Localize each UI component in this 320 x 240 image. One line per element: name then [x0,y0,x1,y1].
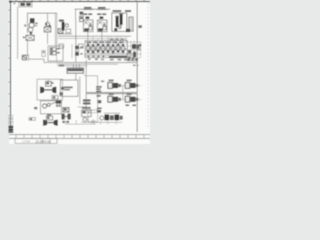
station 2 text [97,13,101,15]
pump P1 [29,23,34,28]
axle 1 bar [42,89,55,91]
frame column ticks [15,1,145,2]
mid right tall box [86,76,97,110]
station 1 header line [83,9,93,11]
small speck left of labels [13,3,15,5]
tractor icon [62,108,71,123]
frame corner mark [9,1,11,3]
small text column right of box [96,86,101,112]
motor group label [101,81,104,82]
small mark right margin [138,25,141,27]
frame left border [10,1,12,132]
pump side specks [35,23,38,25]
pump left speck [24,25,26,27]
steering circles [43,104,47,108]
valve 3a [50,48,56,51]
regulator W1 [22,55,26,59]
left bus cluster [58,20,83,62]
wheel motor bottom-right [125,93,138,102]
inner box mid-left [48,46,63,61]
tank T1 [67,68,84,73]
station 1 label [84,7,91,9]
frame top border [9,1,150,3]
label strip top-left [19,2,32,7]
manifold text specks [87,42,124,43]
wire filter down [47,32,49,44]
wire regulator right [29,59,57,62]
tank riser [72,64,74,68]
station header line [75,8,111,10]
wires to wheels right [78,106,87,108]
label W left [34,107,37,109]
axle box 1 port [61,87,64,90]
label cell B [26,3,30,6]
ruler ticks [16,135,144,139]
brake unit labels [113,10,122,12]
station 2 valve group [97,20,107,32]
under-bar specks [88,58,127,60]
wheel motor top-left [108,80,121,89]
center box right edge [71,44,73,58]
manifold drain triangles [87,56,104,58]
svg-text:21.DRY.10: 21.DRY.10 [36,140,51,144]
accumulator bar 1 [116,17,119,27]
enclosure top-left [28,13,58,33]
valve cluster left-center [58,20,71,34]
manifold dark bar [109,56,127,58]
right valve cluster [126,41,142,61]
valve cluster bottom-center [81,107,122,125]
station 2 solenoid [100,17,104,19]
svg-text:LT-DR: LT-DR [23,140,31,144]
axle 1 control [46,81,52,86]
axle 2 bar [47,122,55,124]
frame row ticks [8,10,10,106]
valve V1 [26,35,34,40]
page background [0,0,150,150]
axle box 1 [37,79,63,100]
valve 3b [50,52,56,55]
revision cells light [9,115,13,125]
accumulator column [80,12,84,22]
wheel motor link wires [106,86,141,100]
extra rails right [108,39,127,41]
motor M1 [30,18,34,23]
tank to box wire [84,74,87,76]
bottom manifold [100,105,136,121]
station 1 valve group [83,20,93,32]
enclosure left tall box edge [54,13,56,46]
revision stack [9,126,14,133]
label P1 [23,37,25,39]
hose band to wheels [86,92,137,94]
filter F1 [46,22,50,26]
wheel motor bottom-left [108,93,121,102]
axle 1 wheel right [52,87,56,94]
bus end specks [133,65,136,67]
text left of bus [59,65,64,67]
bottom ruler band [9,135,150,139]
small side box left [42,51,45,57]
center box text [64,87,73,89]
bus lines center [57,62,137,64]
small square in brake box [114,28,117,31]
label cell A [21,3,25,6]
squares under steering box [56,104,58,106]
steering link [50,102,56,104]
steering dark box [56,100,61,103]
station 1 solenoid [86,17,90,19]
manifold lower rails [85,53,135,55]
wire left vertical [17,7,19,59]
small marks bottom-left of box [60,92,63,95]
station 1 drop wire [87,32,89,41]
page right edge dashes [147,3,149,128]
center white box [60,80,78,96]
text rows left cluster [83,99,90,104]
wire right of center box [79,77,81,104]
lower small box [88,113,98,122]
station 2 drop wire [101,32,103,41]
accumulator bar 2 [120,15,123,25]
bus line upper 2 [58,37,127,39]
wheel motor top-right [125,80,138,89]
axle 1 control riser [47,79,49,81]
manifold valves row [86,44,124,54]
brake unit box [112,13,127,31]
dark block right of brake box [126,29,130,32]
small marks above band center [29,118,35,121]
title box [15,138,57,143]
station 2 header line [97,9,107,11]
valve under box2 [47,114,51,116]
manifold bottom specks [128,57,134,59]
steering box 2 [41,101,62,114]
manifold enclosure [85,41,127,58]
circle in brake box [118,26,121,29]
valve string on riser [75,46,83,56]
tank outlet [75,73,77,80]
station 2 label [98,7,105,9]
axle 1 bottom marks [52,96,58,99]
axle 2 wheel left [43,120,47,126]
manifold risers [93,36,123,40]
pump suction triangle [29,32,32,35]
bus line upper [58,35,131,37]
frame right border [136,1,138,132]
wire riser center [47,13,49,22]
axle 1 wheel left [40,87,44,94]
manifold inner verticals [91,41,121,54]
drain circle [92,120,95,123]
axle 2 wheel right [54,120,58,126]
cylinder right [129,17,133,31]
station riser [75,9,77,20]
wire pump down [27,40,29,56]
manifold inter specks [90,47,126,50]
tractor side wire [65,123,96,125]
station 1 text [83,13,87,15]
